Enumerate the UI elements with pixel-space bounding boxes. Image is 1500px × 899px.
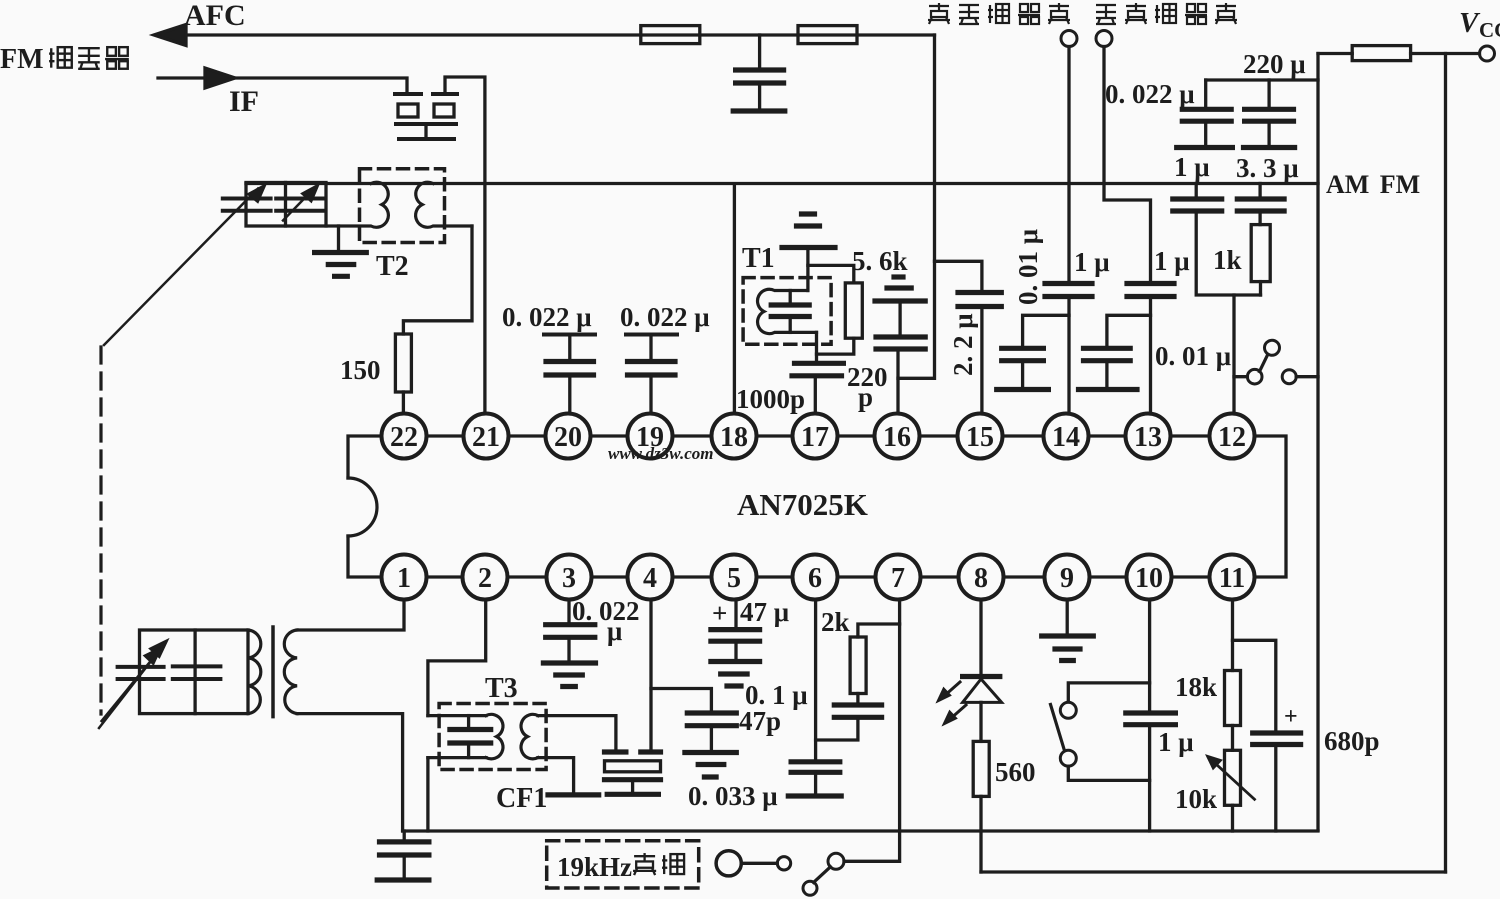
pin 16 — [875, 414, 920, 459]
transformer T1 winding — [758, 289, 817, 333]
svg-text:FM: FM — [0, 44, 44, 75]
svg-text:14: 14 — [1052, 422, 1080, 453]
wire pin 11 down — [1231, 598, 1234, 671]
label right channel output CJK — [928, 3, 950, 24]
pin 5 — [712, 555, 757, 600]
AM tuning gang box — [140, 630, 249, 714]
ground at pin 9 — [1066, 598, 1069, 634]
svg-text:0. 033 μ: 0. 033 μ — [688, 781, 778, 811]
resistor 10k variable — [1225, 750, 1241, 805]
LED light arrow 1 — [943, 682, 960, 697]
svg-text:CC: CC — [1479, 18, 1500, 42]
transformer T2 secondary winding — [416, 182, 472, 227]
ceramic filter CF2 common bottom plate — [396, 122, 456, 126]
wire 18k to 10k — [1231, 726, 1234, 751]
svg-text:4: 4 — [643, 563, 657, 594]
terminal right channel output — [1061, 31, 1077, 47]
pin 14 — [1044, 414, 1089, 459]
svg-text:1000p: 1000p — [736, 384, 805, 414]
svg-text:2k: 2k — [821, 607, 850, 637]
transformer T-AM secondary leads — [297, 598, 404, 630]
IC AN7025K outline left edge with notch — [348, 436, 382, 478]
ground below 47p — [685, 750, 736, 755]
resistor 18k — [1225, 671, 1241, 726]
capacitor 1000p at pin 17 — [792, 363, 843, 376]
inverted ground above 220p — [894, 274, 903, 279]
svg-text:20: 20 — [554, 422, 582, 453]
capacitor 1u to pin 12 net — [1195, 184, 1198, 197]
pin 17 — [793, 414, 838, 459]
svg-text:560: 560 — [995, 757, 1036, 787]
gang link dashed line — [99, 347, 102, 714]
wire AFC vertical to pin 16 — [898, 35, 935, 378]
IC top pin row line — [382, 434, 1255, 437]
variable capacitor C-FM2 arrow — [283, 191, 312, 221]
capacitor inside T3 — [467, 716, 470, 728]
capacitor 0.01u at pin 13 branch — [1107, 315, 1151, 346]
pin 11 — [1210, 555, 1255, 600]
wire pin 10 down — [1148, 598, 1151, 711]
switch across 1u branch top — [1068, 683, 1149, 702]
svg-text:T1: T1 — [742, 243, 775, 274]
svg-text:IF: IF — [229, 85, 259, 118]
svg-text:0. 022 μ: 0. 022 μ — [502, 302, 592, 332]
capacitor C-AFC between AFC resistors — [758, 35, 761, 68]
discriminator CF1 bottom plate — [605, 777, 661, 782]
svg-text:7: 7 — [891, 563, 905, 594]
capacitor at rail A left end — [403, 831, 406, 840]
svg-text:9: 9 — [1060, 563, 1074, 594]
svg-text:19kHz: 19kHz — [557, 852, 632, 882]
switch AM/FM lever — [1260, 355, 1268, 372]
svg-text:+: + — [1284, 704, 1298, 730]
svg-text:18k: 18k — [1175, 672, 1217, 702]
svg-text:0. 01 μ: 0. 01 μ — [1155, 341, 1231, 371]
wire decoupling top branch — [1206, 78, 1318, 81]
terminal 19kHz test point — [716, 851, 741, 876]
wire 5.6k bottom to T1 bottom — [817, 338, 854, 354]
fixed capacitor in AM gang — [173, 666, 221, 679]
svg-text:16: 16 — [883, 422, 911, 453]
resistor 150 — [395, 334, 411, 392]
ground below 47u — [711, 659, 760, 664]
wire T1 bottom to 1000p — [815, 332, 818, 361]
capacitor 220p at pin 16 — [898, 303, 901, 335]
svg-text:11: 11 — [1219, 563, 1245, 594]
gang link arrow lower — [99, 647, 162, 728]
wire pin 8 to LED — [979, 598, 982, 677]
wire T1 node to 5.6k top — [808, 265, 854, 283]
svg-text:47p: 47p — [739, 706, 781, 736]
transformer T-AM secondary winding — [284, 630, 297, 714]
resistor 560 — [973, 741, 989, 796]
wire pin 7 down to 19kHz switch — [844, 598, 900, 861]
svg-text:15: 15 — [966, 422, 994, 453]
ground rail A — [403, 829, 1318, 832]
svg-text:0. 022 μ: 0. 022 μ — [1105, 79, 1195, 109]
capacitor 47p — [687, 713, 736, 726]
0.033u bottom terminal bar — [788, 793, 841, 798]
svg-text:680p: 680p — [1324, 726, 1380, 756]
terminal Vcc — [1480, 46, 1495, 61]
pin 4 — [628, 555, 673, 600]
resistor 5.6k — [845, 283, 862, 338]
wire left channel to 1u cap at pin 13 — [1104, 47, 1151, 282]
svg-text:3: 3 — [562, 563, 576, 594]
svg-text:10k: 10k — [1175, 784, 1217, 814]
svg-text:T2: T2 — [376, 251, 409, 282]
switch 19kHz test lever contact — [828, 853, 844, 869]
capacitor 0.022u at pin 3 — [567, 598, 570, 623]
pin 6 — [793, 555, 838, 600]
resistor 2k — [850, 637, 866, 694]
AFC arrowhead — [154, 25, 186, 46]
svg-text:22: 22 — [390, 422, 418, 453]
svg-text:0. 022 μ: 0. 022 μ — [620, 302, 710, 332]
svg-text:T3: T3 — [485, 673, 518, 704]
capacitor 1u at pin 10 — [1126, 713, 1176, 725]
wire T3 secondary top to discriminator — [538, 716, 616, 750]
wire AFC line — [168, 33, 935, 36]
ceramic filter CF2 centre terminal stub — [424, 126, 427, 137]
svg-text:150: 150 — [340, 355, 381, 385]
resistor R-AFC2 — [798, 26, 857, 44]
capacitor 220u decoupling — [1267, 80, 1270, 107]
pin 12 — [1210, 414, 1255, 459]
svg-text:47 μ: 47 μ — [740, 597, 789, 627]
wire pin 11 branch to 680p — [1233, 640, 1276, 731]
wire pin 4 branch to 47p — [651, 689, 711, 711]
svg-text:5: 5 — [727, 563, 741, 594]
switch across 1u contacts — [1060, 702, 1076, 718]
wire 2.2u branch — [935, 261, 982, 290]
LED D1 triangle — [963, 679, 1002, 702]
capacitor 0.022u at pin 20 top bar — [544, 333, 595, 337]
capacitor 1u at pin 14 — [1045, 284, 1092, 297]
svg-text:0. 022: 0. 022 — [572, 596, 640, 626]
svg-text:CF1: CF1 — [496, 783, 547, 814]
19kHz detection dashed box — [547, 841, 699, 888]
svg-text:17: 17 — [801, 422, 829, 453]
capacitor 0.01u at pin 14 branch — [1023, 315, 1069, 346]
capacitor 0.033u at pin 6 — [791, 762, 840, 773]
FM tuning gang divider — [284, 183, 287, 227]
switch AM/FM left contact — [1234, 375, 1247, 378]
wire pin 12 vertical — [1232, 295, 1235, 413]
IF arrowhead — [205, 68, 235, 88]
switch AM/FM right contact — [1282, 370, 1296, 384]
ceramic filter CF2 centre terminal bar — [399, 137, 454, 141]
label left channel output CJK — [1096, 5, 1116, 24]
capacitor 1u at pin 13 — [1127, 284, 1174, 297]
capacitor 0.022u decoupling — [1204, 80, 1207, 107]
wire AM-FM vertical line — [1316, 54, 1319, 831]
svg-text:μ: μ — [607, 616, 622, 646]
svg-text:8: 8 — [974, 563, 988, 594]
pin 15 — [958, 414, 1003, 459]
transformer T1 dashed box — [743, 278, 831, 345]
wire T2 secondary bottom to 150 resistor — [403, 226, 472, 334]
pin 2 — [463, 555, 508, 600]
wire T3 secondary bottom lead — [538, 758, 574, 793]
variable capacitor C-FM1 plates — [223, 199, 271, 211]
svg-text:13: 13 — [1134, 422, 1162, 453]
svg-text:AN7025K: AN7025K — [737, 487, 868, 522]
variable capacitor C-AM arrow — [102, 655, 157, 722]
svg-text:www.dz3w.com: www.dz3w.com — [608, 444, 713, 463]
pin 3 — [547, 555, 592, 600]
wire 2k branch from pin 7 — [858, 624, 900, 637]
wire pin 4 down to discriminator — [649, 598, 652, 750]
transformer T-AM core — [271, 627, 275, 717]
pin 21 — [464, 414, 509, 459]
svg-text:0. 01 μ: 0. 01 μ — [1013, 229, 1043, 305]
resistor 1k — [1251, 225, 1270, 282]
LED D1 cathode bar — [963, 674, 1000, 679]
T3 secondary bottom terminal bar — [548, 792, 599, 797]
svg-text:p: p — [858, 382, 873, 412]
ceramic filter CF2 left resonator top plate — [395, 92, 421, 96]
svg-text:6: 6 — [808, 563, 822, 594]
wire right channel to 1u cap — [1067, 47, 1070, 282]
bottom rail B to Vcc — [981, 870, 1446, 873]
variable capacitor C-FM2 plates — [276, 199, 323, 211]
svg-text:1 μ: 1 μ — [1174, 152, 1210, 182]
pin 18 — [712, 414, 757, 459]
svg-text:1 μ: 1 μ — [1154, 246, 1190, 276]
pin 8 — [959, 555, 1004, 600]
inverted ground above T1 — [802, 211, 815, 216]
IC bottom pin row line — [382, 575, 1255, 578]
svg-text:21: 21 — [472, 422, 500, 453]
svg-text:3. 3 μ: 3. 3 μ — [1236, 153, 1299, 183]
wire Vcc top rail — [1318, 52, 1480, 55]
svg-text:2: 2 — [478, 563, 492, 594]
wire 1k bottom — [1259, 282, 1262, 295]
transformer T3 top rail — [428, 714, 486, 717]
pin 19 — [628, 414, 673, 459]
pin 1 — [382, 555, 427, 600]
capacitor 0.022u at pin 19 top bar — [626, 333, 677, 337]
switch 19kHz fixed contact — [777, 857, 790, 870]
wire T3 ground drop to rail — [426, 758, 429, 831]
transformer T3 bottom rail — [428, 756, 486, 759]
variable capacitor C-FM1 arrow — [104, 189, 258, 346]
wire pin 6 down — [814, 598, 817, 760]
svg-text:1: 1 — [397, 563, 411, 594]
capacitor inside T1 — [789, 291, 792, 304]
capacitor 3.3u to 1k — [1258, 184, 1261, 197]
terminal left channel output — [1096, 31, 1112, 47]
wire filter right lead to pin 21 — [445, 77, 485, 413]
transformer T3 left winding — [486, 714, 503, 758]
variable capacitor C-AM plates — [118, 667, 164, 679]
wire pin 18 to IF bus — [733, 185, 736, 413]
svg-text:1 μ: 1 μ — [1158, 727, 1194, 757]
discriminator CF1 top plates — [605, 749, 661, 754]
pin 20 — [546, 414, 591, 459]
transformer T3 dashed box — [439, 704, 546, 770]
ceramic filter CF2 left resonator body — [398, 104, 418, 117]
svg-text:10: 10 — [1135, 563, 1163, 594]
ceramic filter CF2 right resonator body — [434, 104, 454, 117]
svg-text:AFC: AFC — [184, 0, 246, 32]
wire 150 to pin 22 — [402, 392, 405, 413]
FM tuning gang box — [246, 183, 326, 227]
transformer T2 dashed box — [360, 169, 445, 243]
svg-text:+: + — [712, 598, 727, 628]
pin 13 — [1126, 414, 1171, 459]
pin 9 — [1045, 555, 1090, 600]
ceramic filter CF2 right resonator top plate — [433, 92, 457, 96]
AM tuning gang divider — [193, 630, 196, 714]
svg-text:1 μ: 1 μ — [1074, 247, 1110, 277]
resistor R-Vcc — [1352, 46, 1410, 61]
wire LED to 560 — [979, 702, 982, 741]
wire Vcc right vertical — [1444, 54, 1447, 873]
discriminator CF1 centre stub and bar — [631, 782, 634, 793]
capacitor 0.022u at pin 20 — [568, 337, 571, 360]
svg-text:AM FM: AM FM — [1326, 170, 1420, 199]
LED light arrow 2 — [949, 705, 966, 720]
pin 22 — [382, 414, 427, 459]
pin 7 — [876, 555, 921, 600]
variable resistor 10k arrow — [1211, 760, 1255, 800]
svg-text:2. 2 μ: 2. 2 μ — [948, 313, 978, 376]
capacitor 680p — [1253, 733, 1301, 745]
capacitor 2.2u at pin 15 — [958, 293, 1001, 307]
wire 560 to bottom rail — [979, 796, 982, 872]
svg-text:18: 18 — [720, 422, 748, 453]
svg-text:5. 6k: 5. 6k — [852, 246, 908, 276]
IC AN7025K outline right edge — [1255, 436, 1287, 577]
wire long IF bus line — [246, 182, 1318, 185]
pin 10 — [1127, 555, 1172, 600]
resistor R-AFC1 — [641, 26, 700, 44]
transformer T3 right winding — [521, 714, 538, 758]
transformer T-AM primary winding bumps — [248, 630, 261, 714]
label FM tuner CJK — [49, 47, 72, 68]
svg-text:12: 12 — [1218, 422, 1246, 453]
switch across 1u branch bottom — [1068, 766, 1149, 780]
transformer T2 primary winding — [326, 182, 388, 227]
svg-text:1k: 1k — [1213, 245, 1242, 275]
ground below pin 3 cap — [543, 660, 595, 665]
capacitor 47u at pin 5 — [734, 598, 737, 627]
wire IF line — [158, 78, 407, 94]
wire pin 2 to T3 — [428, 598, 486, 716]
discriminator CF1 body — [605, 761, 661, 772]
ground below FM gang — [337, 226, 340, 251]
svg-text:220 μ: 220 μ — [1243, 49, 1306, 79]
capacitor 0.022u at pin 19 — [649, 337, 652, 360]
wire 10k to rail — [1231, 805, 1234, 831]
capacitor below 2k — [856, 694, 859, 703]
svg-text:V: V — [1459, 7, 1481, 39]
